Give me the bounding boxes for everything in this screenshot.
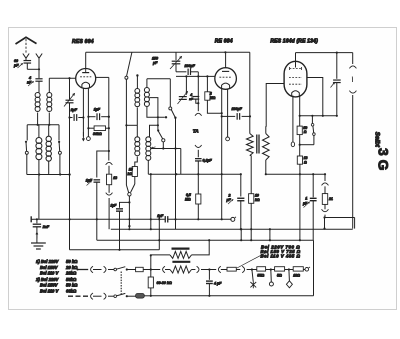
svg-text:21: 21	[328, 197, 333, 201]
resistor R1 30kOhm grid leak	[88, 126, 110, 136]
tube V3 grids	[289, 78, 302, 85]
loudspeaker socket upper	[349, 53, 356, 69]
tap diamond 110V	[286, 270, 292, 288]
voltage selector resistor 10 Ohm	[293, 267, 305, 278]
switch S3	[126, 177, 134, 197]
tube V2 cathode	[222, 83, 230, 88]
heater line A right segment	[325, 218, 355, 229]
earth terminal	[31, 216, 33, 222]
voltage note 220V	[261, 244, 300, 249]
band switch S1a	[25, 125, 28, 175]
capacitor 1uF series in line A	[157, 214, 231, 223]
tap circle 150V	[269, 270, 273, 287]
fuse box line2	[136, 294, 151, 299]
label TA	[193, 128, 199, 133]
tube V2 RE084 envelope	[215, 68, 237, 90]
svg-text:10Ω: 10Ω	[293, 273, 300, 277]
svg-text:50 kΩ: 50 kΩ	[66, 283, 78, 288]
svg-text:50kΩ: 50kΩ	[66, 277, 77, 282]
wave coil L4	[46, 125, 51, 175]
table note 4	[35, 277, 77, 282]
loudspeaker plug mark	[351, 77, 353, 83]
capacitor 4nF with trimmer	[178, 76, 200, 104]
enclosure right edge	[313, 240, 315, 296]
svg-text:kΩ: kΩ	[128, 172, 133, 176]
wire rail down to line1	[150, 254, 152, 270]
tube V1 heater pin b (terminal)	[87, 88, 91, 141]
capacitor C8 1uF electrolytic	[302, 174, 317, 240]
socket contact J1	[23, 54, 29, 61]
tube V3 heater pin (terminal)	[291, 96, 294, 147]
label RE 084	[215, 38, 233, 44]
svg-text:MΩ: MΩ	[185, 197, 191, 201]
wave coil L3	[36, 125, 42, 175]
mains line 2 left stub	[68, 295, 88, 297]
trimmer capacitor 150pF	[152, 52, 186, 72]
selector end terminal	[305, 267, 310, 271]
line A terminal circle	[231, 217, 236, 222]
wire V3 plate to top bus	[295, 53, 297, 61]
label RES 164d (RE 134)	[270, 38, 318, 44]
svg-text:50 kΩ: 50 kΩ	[66, 259, 78, 264]
socket contact J2	[36, 54, 42, 70]
tube V2 heater pin (terminal)	[226, 89, 230, 141]
resistor R3 15kOhm	[128, 167, 138, 177]
capacitor C3 1uF	[87, 108, 110, 121]
dropper resistor line1	[151, 262, 216, 273]
capacitor C2 1uF	[70, 108, 85, 121]
wire secondary bottom contact	[147, 107, 167, 119]
plug contact below R2	[106, 193, 113, 230]
wire HT bus corner down	[249, 52, 251, 133]
tuning capacitor C1 (variable)	[64, 78, 75, 106]
plug element rail	[322, 174, 329, 193]
svg-text:60: 60	[14, 59, 18, 63]
ground arrow	[36, 227, 38, 243]
wire cathode to netz	[266, 173, 326, 175]
svg-text:RES 164d (RE 134): RES 164d (RE 134)	[270, 38, 318, 44]
band switch S1b	[58, 125, 61, 175]
resistor R6 10kOhm	[249, 156, 260, 242]
svg-text:5Ω: 5Ω	[277, 273, 282, 277]
svg-text:30kΩ: 30kΩ	[93, 132, 102, 136]
heating resistor 60-80	[148, 270, 172, 297]
svg-text:1µF: 1µF	[86, 179, 93, 183]
capacitor 100pF series	[185, 64, 199, 76]
svg-text:RES 094: RES 094	[72, 39, 94, 45]
T2 lower secondary coil	[146, 137, 151, 174]
svg-text:100µF: 100µF	[232, 107, 243, 111]
switch S6b	[108, 293, 136, 297]
svg-text:µF: µF	[152, 61, 158, 65]
plug resistor R2	[107, 174, 118, 193]
resistor R7 50 Ohm	[297, 126, 307, 156]
svg-text:2: 2	[228, 194, 231, 198]
capacitor 60pF	[13, 59, 31, 68]
voltage note 110V	[261, 253, 301, 258]
line D	[70, 249, 160, 251]
svg-text:15: 15	[129, 167, 133, 171]
wire rail branch to C4	[97, 150, 110, 178]
wire T3 secondary bottom	[265, 160, 267, 175]
tube V2 grid	[219, 76, 231, 78]
resistor R8 13 Ohm	[297, 156, 307, 241]
svg-text:kΩ: kΩ	[255, 198, 260, 202]
tube V1 heater pin a (arrow)	[82, 88, 84, 141]
coil tap arrow	[151, 147, 155, 149]
pickup jack TA lower	[195, 145, 202, 157]
tube V1 cathode	[82, 82, 90, 87]
HT bus top	[86, 51, 250, 53]
svg-text:1µF: 1µF	[71, 108, 78, 112]
table note 6	[40, 289, 77, 294]
node bottom of input coils	[27, 173, 71, 175]
line1 to voltage selector	[218, 266, 256, 272]
switch link (mechanical)	[120, 272, 122, 295]
wire antenna lead-in (dashed)	[25, 39, 27, 54]
tube V3 RES164d envelope	[284, 61, 307, 97]
svg-text:1µF: 1µF	[111, 204, 118, 208]
svg-text:Bei 110 V 485 Ω: Bei 110 V 485 Ω	[261, 253, 301, 258]
wire secondary top to switch S4	[147, 78, 170, 80]
line A earth bus	[34, 218, 165, 220]
mains line 1 left stub	[77, 269, 89, 271]
wire V3 screen tap	[307, 78, 324, 117]
table note 2	[40, 265, 78, 270]
wire input coils to earth bus	[38, 175, 40, 220]
svg-text:Bei 110 V: Bei 110 V	[40, 289, 60, 294]
switch S6a	[108, 267, 136, 271]
table note 5	[40, 283, 78, 288]
wire grid return rail	[95, 77, 110, 151]
wire T3 primary rail to B	[240, 229, 242, 240]
antenna coil L1	[35, 93, 40, 112]
svg-text:20kΩ: 20kΩ	[65, 271, 77, 276]
mains dropper with core bar	[151, 240, 209, 258]
plug contact above R2	[106, 151, 113, 174]
capacitor C4 1uF electrolytic	[86, 179, 100, 241]
svg-text:2) Bei 220V: 2) Bei 220V	[35, 277, 60, 282]
annotation pointer	[237, 252, 268, 268]
tube V2 anode	[222, 52, 229, 71]
svg-text:Bei 110 V: Bei 110 V	[40, 271, 60, 276]
svg-text:1: 1	[305, 196, 307, 200]
svg-text:Bei 150V: Bei 150V	[40, 265, 59, 270]
svg-text:1) Bei 220V: 1) Bei 220V	[36, 259, 60, 264]
mains line 2	[151, 295, 314, 297]
ground	[31, 243, 46, 249]
wire T3 secondary top to V3 grid	[266, 84, 285, 127]
switch S2 from HT bus	[125, 52, 137, 185]
svg-text:60kΩ: 60kΩ	[66, 289, 77, 294]
svg-text:13: 13	[113, 176, 117, 180]
table note 3	[40, 271, 77, 276]
svg-text:2nF: 2nF	[42, 225, 50, 229]
svg-text:Ω: Ω	[303, 130, 307, 134]
svg-text:TA: TA	[193, 128, 199, 133]
loudspeaker socket lower	[349, 91, 356, 229]
svg-text:0,5: 0,5	[186, 193, 191, 197]
svg-text:10: 10	[255, 194, 259, 198]
wire plug rail to bus B	[323, 218, 325, 230]
wire lower transformer common	[148, 173, 241, 175]
capacitor 4nF	[27, 69, 43, 86]
resistor series box	[136, 267, 151, 271]
svg-text:Bei 150V: Bei 150V	[40, 283, 59, 288]
svg-text:RE 084: RE 084	[215, 38, 233, 44]
transformer T3 primary winding	[247, 134, 254, 156]
tone capacitor (variable)	[331, 53, 341, 117]
T2 lower primary coil	[135, 137, 140, 167]
capacitor 4uF	[206, 270, 222, 297]
capacitor 0.1uF	[195, 158, 212, 194]
wire C1 down	[68, 103, 70, 250]
tube V1 grid	[80, 76, 91, 78]
switch S4b	[157, 129, 165, 148]
svg-text:3 G: 3 G	[376, 148, 392, 171]
svg-text:100µF: 100µF	[185, 64, 196, 68]
svg-text:MΩ: MΩ	[210, 96, 216, 100]
capacitor 2nF to ground	[33, 219, 50, 229]
tube V3 cathode rail	[299, 96, 301, 126]
svg-text:13: 13	[304, 156, 308, 160]
svg-text:1µF: 1µF	[157, 214, 164, 218]
transformer T3 secondary winding	[263, 126, 270, 160]
tube V3 anode	[290, 61, 302, 70]
model 3G	[376, 148, 392, 171]
svg-text:55Ω: 55Ω	[257, 273, 264, 277]
wire V1 plate to HT bus	[85, 52, 87, 69]
wire cathode node line	[300, 115, 337, 117]
wire A to C link	[158, 218, 160, 250]
svg-text:60-80 kΩ: 60-80 kΩ	[157, 281, 172, 285]
transformer T3 core	[257, 135, 259, 154]
output bus	[296, 52, 353, 54]
plug resistor box	[322, 194, 333, 210]
antenna	[16, 37, 37, 44]
capacitor C5 1uF electrolytic	[111, 202, 130, 249]
svg-text:150: 150	[152, 57, 158, 61]
wire grid line tube1	[49, 77, 76, 79]
line C	[97, 239, 314, 241]
tube V1 RES094 envelope	[76, 69, 96, 89]
tube V1 anode	[82, 69, 89, 73]
svg-text:1µF: 1µF	[94, 108, 101, 112]
label RES 094	[72, 39, 94, 45]
pickup jack TA upper	[195, 76, 202, 115]
switch S4 right of T2	[169, 79, 177, 229]
svg-text:Seibt: Seibt	[374, 132, 381, 148]
wire 60pF to node	[27, 63, 40, 70]
svg-text:4: 4	[28, 76, 31, 80]
HF transformer T2 primary upper	[135, 74, 140, 137]
HF transformer T2 secondary upper	[144, 79, 149, 107]
voltage selector resistor 5 Ohm	[275, 267, 294, 278]
wire V2 grid line	[176, 75, 215, 77]
coil tap upper	[149, 98, 159, 137]
capacitor 100pF coupling	[222, 107, 251, 120]
heater bus B	[111, 228, 353, 230]
voltage selector resistor 55 Ohm	[257, 267, 275, 278]
switch S5 shorting R7	[300, 116, 316, 145]
resistor R5 0.5MOhm	[185, 193, 201, 221]
tube V3 cathode	[292, 91, 300, 96]
tap star 220V	[250, 270, 256, 289]
svg-text:4 µF: 4 µF	[213, 282, 222, 286]
svg-text:0,1µF: 0,1µF	[203, 158, 213, 162]
table note 1	[36, 259, 78, 264]
wire tap line	[151, 147, 181, 174]
mains line1 socket pair	[91, 266, 106, 272]
svg-text:Ω: Ω	[303, 160, 307, 164]
brand Seibt	[374, 132, 381, 148]
wire rail to power unit	[150, 174, 152, 230]
svg-text:nF: nF	[189, 97, 193, 101]
svg-text:20 kΩ: 20 kΩ	[65, 265, 78, 270]
svg-text:µF: µF	[302, 201, 308, 205]
capacitor 2uF	[226, 173, 245, 230]
tube V2 cathode rail	[221, 89, 223, 221]
grid coil L2	[47, 78, 52, 111]
link B to C	[250, 228, 271, 241]
mains line2 socket pair	[91, 293, 106, 299]
wire S3 to heater bus B	[128, 196, 130, 230]
plug element lower socket	[322, 209, 329, 218]
voltage note 150V	[261, 249, 301, 254]
wire coils to band switch bus	[27, 113, 59, 126]
resistor R4 2MOhm	[205, 76, 223, 114]
wire 4nF to antenna coil	[38, 81, 40, 92]
